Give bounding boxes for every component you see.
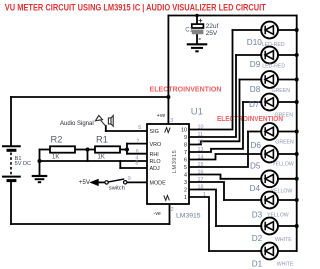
svg-text:SIG: SIG [150, 129, 159, 135]
svg-text:9: 9 [184, 135, 187, 141]
svg-text:D10: D10 [247, 38, 262, 47]
svg-text:4: 4 [184, 173, 187, 179]
resistor R2 [50, 146, 75, 152]
ground (battery/R2 node) [32, 176, 48, 182]
svg-text:VU METER CIRCUIT USING LM3915: VU METER CIRCUIT USING LM3915 IC | AUDIO… [5, 3, 267, 13]
switch [105, 179, 127, 184]
svg-text:1: 1 [203, 192, 206, 198]
wire bottom rail [11, 223, 170, 225]
svg-text:GREEN: GREEN [272, 88, 291, 94]
wire D2 row left [216, 225, 261, 227]
svg-text:WHITE: WHITE [275, 237, 292, 243]
wire row B (RLO rail) [40, 160, 148, 162]
wire pin10 to D10 [189, 30, 233, 130]
IC pin labels left inside [150, 129, 167, 186]
svg-text:switch: switch [109, 185, 125, 191]
svg-text:6: 6 [136, 149, 139, 155]
wire D6 row left [248, 131, 261, 133]
wire D8 row right [278, 79, 297, 81]
wire pin18 to D2 [189, 190, 216, 227]
svg-text:5V DC: 5V DC [15, 161, 31, 167]
svg-text:D8: D8 [250, 85, 261, 94]
svg-text:D4: D4 [250, 184, 261, 193]
wire D3 row left [224, 199, 261, 201]
wire C1 top lead [196, 16, 198, 24]
wire right rail [296, 16, 298, 252]
wire D3 row right [278, 199, 297, 201]
wire pin16 to D4 [189, 175, 221, 179]
svg-text:D5: D5 [250, 162, 261, 171]
ground (under C1) [187, 44, 208, 51]
svg-text:18: 18 [198, 184, 204, 190]
wire D1 row right [278, 250, 297, 252]
svg-text:11: 11 [198, 132, 204, 138]
svg-text:7: 7 [136, 139, 139, 145]
svg-text:+5V: +5V [79, 179, 91, 186]
svg-text:2: 2 [171, 207, 174, 213]
svg-text:8: 8 [184, 143, 187, 149]
wire D7 row right [278, 101, 297, 103]
svg-text:D1: D1 [252, 260, 263, 269]
svg-text:MODE: MODE [150, 181, 167, 187]
wire ADJ pin8 stub [120, 167, 147, 169]
wire D2 row right [278, 225, 297, 227]
LED D5 [261, 146, 278, 163]
wire VRO pin7 stub [127, 143, 147, 145]
LED D10 [261, 22, 278, 39]
node junction dots [38, 14, 299, 228]
svg-text:1K: 1K [98, 154, 105, 160]
wire left rail bottom (battery - lead) [10, 181, 12, 224]
wire R1 right lead [120, 149, 127, 151]
LED D7 [261, 94, 278, 111]
IC bottom chevron glyph [164, 195, 170, 200]
svg-text:RLO: RLO [150, 159, 161, 165]
svg-text:1: 1 [184, 195, 187, 201]
wire +5V arrow shaft [99, 181, 105, 183]
svg-text:D2: D2 [252, 234, 263, 243]
svg-text:25V: 25V [206, 30, 218, 37]
svg-text:12: 12 [198, 139, 204, 145]
wire D7 row left [243, 101, 261, 103]
wire -ve stub up to IC [169, 204, 171, 224]
wire pin14 to D5 [189, 154, 216, 160]
LED D4 [261, 170, 278, 187]
svg-text:D3: D3 [252, 210, 263, 219]
svg-text:14: 14 [198, 154, 204, 160]
svg-text:C1: C1 [185, 27, 193, 33]
wire D9 row left [236, 54, 261, 56]
wire ground drop at R2 left [39, 150, 41, 176]
wire pin7/pin6 split vertical [126, 144, 128, 154]
LED D2 [261, 218, 278, 235]
wire R2-R1 link [75, 149, 95, 151]
svg-text:D9: D9 [250, 60, 261, 69]
svg-text:22uf: 22uf [206, 23, 219, 30]
wire pin17 to D3 [189, 182, 224, 200]
wire RHI pin6 stub [127, 153, 147, 155]
IC pin numbers right inside [181, 128, 187, 202]
svg-text:ADJ: ADJ [150, 166, 160, 172]
svg-text:5: 5 [184, 165, 187, 171]
svg-text:-: - [198, 34, 201, 43]
svg-text:R2: R2 [51, 134, 63, 144]
wire audio signal drop [105, 126, 107, 131]
svg-text:16: 16 [198, 169, 204, 175]
svg-text:ELECTROINVENTION: ELECTROINVENTION [150, 85, 222, 94]
svg-text:3: 3 [184, 180, 187, 186]
wire SIG pin5 stub [106, 130, 147, 132]
svg-text:10: 10 [198, 124, 204, 130]
wire switch to MODE pin9 [127, 181, 147, 183]
svg-text:3: 3 [170, 118, 173, 124]
wire D5 row right [278, 153, 297, 155]
LED D1 [261, 243, 278, 260]
wire D9 row right [278, 54, 297, 56]
svg-text:10: 10 [181, 128, 187, 134]
wire left rail top (battery + lead) [10, 97, 12, 146]
wire D10 row right [278, 29, 297, 31]
svg-text:R1: R1 [96, 134, 108, 144]
audio input terminal arrow [95, 115, 105, 126]
capacitor C1 [192, 24, 204, 28]
svg-text:2: 2 [184, 188, 187, 194]
svg-text:LED-RED: LED-RED [262, 64, 285, 70]
svg-text:GREEN: GREEN [275, 112, 294, 118]
svg-text:GREEN: GREEN [275, 139, 294, 145]
svg-text:Audio Signal: Audio Signal [60, 121, 94, 127]
battery B1 [2, 146, 21, 180]
speaker icon [108, 116, 113, 127]
wire D5 row left [216, 153, 262, 155]
wire pin11 to D9 [189, 55, 236, 137]
svg-text:7: 7 [184, 150, 187, 156]
svg-text:WHITE: WHITE [277, 262, 294, 268]
LED D3 [261, 192, 278, 209]
wire D6 row right [278, 131, 297, 133]
svg-text:13: 13 [198, 147, 204, 153]
resistor R1 [95, 146, 120, 152]
+5V net arrow [89, 179, 98, 186]
svg-text:RHI: RHI [150, 152, 159, 158]
svg-text:+: + [198, 16, 203, 25]
wire D4 row right [278, 178, 297, 180]
wire D10 row left [233, 29, 262, 31]
svg-text:17: 17 [198, 177, 204, 183]
svg-text:U1: U1 [191, 106, 203, 117]
svg-text:LM3915: LM3915 [176, 213, 201, 220]
svg-text:ELECTROINVENTION: ELECTROINVENTION [217, 114, 283, 123]
wire D4 row left [221, 178, 262, 180]
svg-text:VRO: VRO [150, 142, 162, 148]
IC signal squiggle glyph [165, 128, 171, 133]
svg-text:8: 8 [135, 161, 138, 167]
wire D8 row left [240, 79, 262, 81]
svg-text:5: 5 [138, 125, 141, 131]
wire D1 row left [209, 250, 261, 252]
LED D9 [261, 47, 278, 64]
svg-text:9: 9 [128, 176, 131, 182]
svg-text:D7: D7 [249, 100, 260, 109]
wire pin13 to D7 [189, 102, 243, 152]
wire R2/R1 junction drop [87, 150, 89, 162]
svg-text:D6: D6 [251, 141, 262, 150]
wire pin1 to D1 [189, 197, 209, 251]
wire top-left rail to junction [11, 96, 168, 98]
wire pin15 to D6 [189, 132, 248, 168]
wire C1 bottom lead [196, 34, 198, 43]
svg-text:15: 15 [198, 162, 204, 168]
wire top rail [168, 15, 296, 17]
IC U1 LM3915 body [147, 124, 189, 204]
svg-text:+ve: +ve [157, 113, 166, 119]
svg-text:1K: 1K [52, 154, 59, 160]
LED D8 [261, 71, 278, 88]
wire R2 left lead [40, 149, 51, 151]
svg-text:-ve: -ve [154, 211, 161, 217]
wire pin12 to D8 [189, 80, 240, 145]
LED D6 [261, 123, 278, 140]
svg-text:6: 6 [184, 158, 187, 164]
wire main +V vertical [167, 16, 169, 125]
wire ADJ T drop [119, 161, 121, 168]
svg-text:LM3915: LM3915 [172, 150, 178, 173]
svg-text:YELLOW: YELLOW [272, 161, 294, 167]
right side outer pin numbers [198, 124, 207, 198]
